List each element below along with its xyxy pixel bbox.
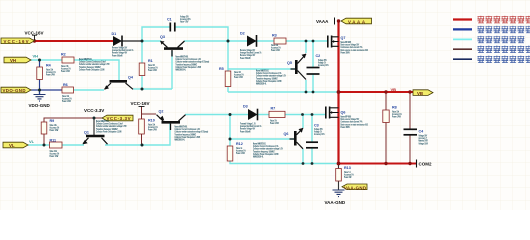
svg-text:R11: R11 [50,139,57,143]
svg-text:Q7: Q7 [341,36,346,40]
svg-text:R1: R1 [148,59,153,63]
wire VDO ground stem [39,90,41,94]
capacitor C3 [306,142,318,148]
wire R3 to mosfet gate [286,40,327,42]
diode D1 [113,36,122,47]
svg-text:C1: C1 [167,18,172,22]
wire Q5 emitter up [305,41,307,53]
svg-text:R7: R7 [271,107,276,111]
legend line small-current positive [453,48,472,50]
node Q1 base junction [93,117,96,120]
node text VCC-16V mid [131,101,150,107]
node D1 output junction [141,40,144,43]
svg-text:D2: D2 [240,32,245,36]
svg-text:Q6: Q6 [341,111,346,115]
svg-text:VDO-GND: VDO-GND [29,103,51,108]
wire VDO-GND navy [31,89,62,91]
wire VB red line [339,91,414,93]
transistor Q1 [83,136,108,144]
port label VDO-GND yellow [1,87,31,93]
resistor R7 [269,111,285,117]
port label VCC-3.3V yellow [102,115,133,121]
node VCC-16V port junction [33,39,36,42]
wire Q1 collector to Q2 base [105,123,170,145]
svg-text:VB: VB [391,87,397,92]
resistor R8 [383,110,389,123]
svg-text:Voltage 50VAccuracy ?Material: Voltage 50VAccuracy ?Material X7RVoltage… [419,134,429,145]
wire VL line [28,144,49,146]
transistor Q3 [160,41,184,57]
wire R13 stems [338,164,340,191]
node D2 anode junction [227,40,230,43]
node VB rail junction [337,90,341,94]
wire D1 cathode to node [123,40,143,42]
resistor R10 [139,119,145,134]
node Q8 emitter junction [301,113,304,116]
wire C3 bottom stem [311,149,313,164]
node R8 bottom junction [384,162,387,165]
svg-text:VCC-16V: VCC-16V [4,39,29,44]
ground VAA-GND [333,190,345,197]
resistor R5 [225,71,231,87]
wire top rail left [142,27,170,41]
node C2 top junction [312,40,315,43]
legend text small-current negative [478,56,530,63]
svg-text:VH: VH [33,54,39,59]
transistor Q8 [290,128,304,149]
wire C4 top stem [409,92,411,129]
wire R5 bottom to row [227,87,229,92]
node C2 bottom junction [312,91,315,94]
node text VAAA [316,18,335,25]
node VAAA junction [337,19,340,22]
wire Q5 base line [228,68,295,70]
svg-text:R10: R10 [148,119,155,123]
wire Q3 base down [171,51,173,89]
port label VAAA yellow [341,18,372,24]
svg-text:VDO-GND: VDO-GND [3,88,26,93]
legend line large-current negative [453,28,472,30]
svg-text:Q3: Q3 [160,35,165,39]
node Q8 collector junction [302,162,305,165]
transistor Q2 [157,115,186,130]
svg-text:VL: VL [29,139,35,144]
svg-text:R12: R12 [236,142,243,146]
svg-text:VCC-3.3V: VCC-3.3V [107,116,131,121]
svg-text:R2: R2 [61,53,66,57]
wire C4 bottom stem [409,136,411,164]
port label VB yellow [413,90,433,96]
wire R9 bottom stem [43,134,45,145]
wire Q4 collector tail [133,88,142,90]
wire R4 top stem [39,60,41,67]
resistor R1 [139,63,145,76]
capacitor C2 [307,68,320,75]
wire VH line [31,59,62,61]
svg-text:VB: VB [417,91,423,96]
svg-text:R5: R5 [219,67,224,71]
wire Q8 base line [230,138,294,140]
node C4 top junction [408,90,411,93]
resistor R6 [62,87,74,93]
wire C2 bottom stem [312,75,314,93]
wire VCC-16V port stem [141,107,143,120]
port label VH yellow [4,57,31,63]
wire C3 top stem [311,115,313,142]
node R9 VL junction [43,144,46,147]
legend line small-current negative [453,58,472,60]
wire node B horizontal [142,88,172,90]
port label VAA-GND yellow [342,184,367,190]
node VDO-GND R4 junction [38,89,41,92]
wire Q2 emitter feed [142,113,157,115]
wire top rail right [176,27,229,41]
diode D3 [248,109,258,121]
wire R5 vertical top [227,41,229,71]
mosfet Q6 [326,107,339,119]
resistor R11 [50,142,63,148]
svg-text:R3: R3 [272,34,277,38]
port label VCC-16V yellow [1,38,35,44]
wire R8 bottom stem [385,123,387,164]
transistor Q4 [104,81,133,89]
wire COM rail red [339,163,417,165]
port COM2 [417,160,432,168]
svg-text:D3: D3 [243,105,248,109]
wire node D3 down to R12 [229,115,231,147]
wire Q3 collector line [184,40,274,42]
legend text large-current negative [478,26,530,33]
wire mid cyan row [228,91,339,93]
wire R12 bottom corner [230,161,339,164]
wire R1 bottom to node B [141,76,143,90]
wire R2 to Q4 base [74,60,119,80]
wire VCC-16V red feed [35,40,113,42]
legend line large-current positive [453,18,472,20]
node D3 anode junction [229,113,232,116]
resistor R3 [274,38,286,44]
svg-text:COM2: COM2 [419,162,432,167]
svg-text:R6: R6 [63,83,68,87]
node Q5 collector junction [305,91,308,94]
svg-text:R8: R8 [392,106,397,110]
legend text large-current positive [478,16,530,23]
svg-text:D1: D1 [112,32,117,36]
resistor R13 [336,169,342,182]
node R10 bottom junction [141,144,144,147]
node C4 bottom junction [408,162,411,165]
wire R11 to Q1 emitter [62,144,84,146]
wire R7 to Q6 gate [285,114,325,116]
svg-text:Q1: Q1 [84,131,89,135]
node COM rail left junction [337,162,341,166]
capacitor C4 [404,129,418,135]
transistor Q5 [291,54,307,80]
node C3 bottom junction [311,162,314,165]
wire C2 top stem [312,41,314,67]
ground VDO-GND [34,95,46,102]
svg-text:R13: R13 [344,166,351,170]
wire Q8 collector down [302,149,304,164]
svg-text:VAAA: VAAA [316,19,329,24]
wire Q1 base stem [93,118,95,135]
legend line small signal [453,38,472,40]
node R1 Q3-base Q4-collector junction [141,88,144,91]
svg-text:Q6: Q6 [284,132,289,136]
svg-text:VAA-GND: VAA-GND [325,200,346,205]
resistor R12 [227,146,233,161]
wire R6 to Q4 emitter [73,89,104,91]
resistor R2 [62,57,74,63]
port label VL yellow [3,142,28,148]
wire R8 top stem [385,92,387,110]
wire node to R1 [141,41,143,63]
svg-text:Q5: Q5 [287,61,292,65]
wire R10 bottom stem [141,134,143,145]
svg-text:C3: C3 [314,124,319,128]
node Q8 base junction [229,138,232,141]
wire Q5 collector down [305,80,307,92]
svg-text:R9: R9 [50,119,55,123]
node Q5 emitter junction [305,40,308,43]
legend text small-current positive [478,46,530,53]
svg-text:C2: C2 [316,54,321,58]
resistor R4 [37,67,43,80]
node R8 top junction [384,90,387,93]
wire Q8 emitter up [302,115,304,129]
node VH R4 junction [38,59,41,62]
wire Q2 collector line [185,114,274,116]
node C3 top junction [311,113,314,116]
diode D2 [247,35,257,47]
svg-text:VAA-GND: VAA-GND [344,185,366,190]
resistor R9 [41,122,47,134]
svg-text:VH: VH [10,58,16,63]
node text VCC-16V top [25,31,44,41]
wire VCC-3.3V rail maroon [44,118,102,122]
mosfet Q7 [328,36,339,48]
capacitor C1 [170,23,175,32]
svg-text:VCC-3.3V: VCC-3.3V [84,108,104,113]
wire Q3 emitter feed [142,40,161,42]
svg-text:VCC-16V: VCC-16V [131,101,150,106]
wire R4 bottom stem [39,80,41,95]
wire VAAA red vertical [337,21,339,164]
svg-text:Q2: Q2 [159,110,164,114]
svg-text:VL: VL [9,143,15,148]
legend text small signal [478,36,525,43]
